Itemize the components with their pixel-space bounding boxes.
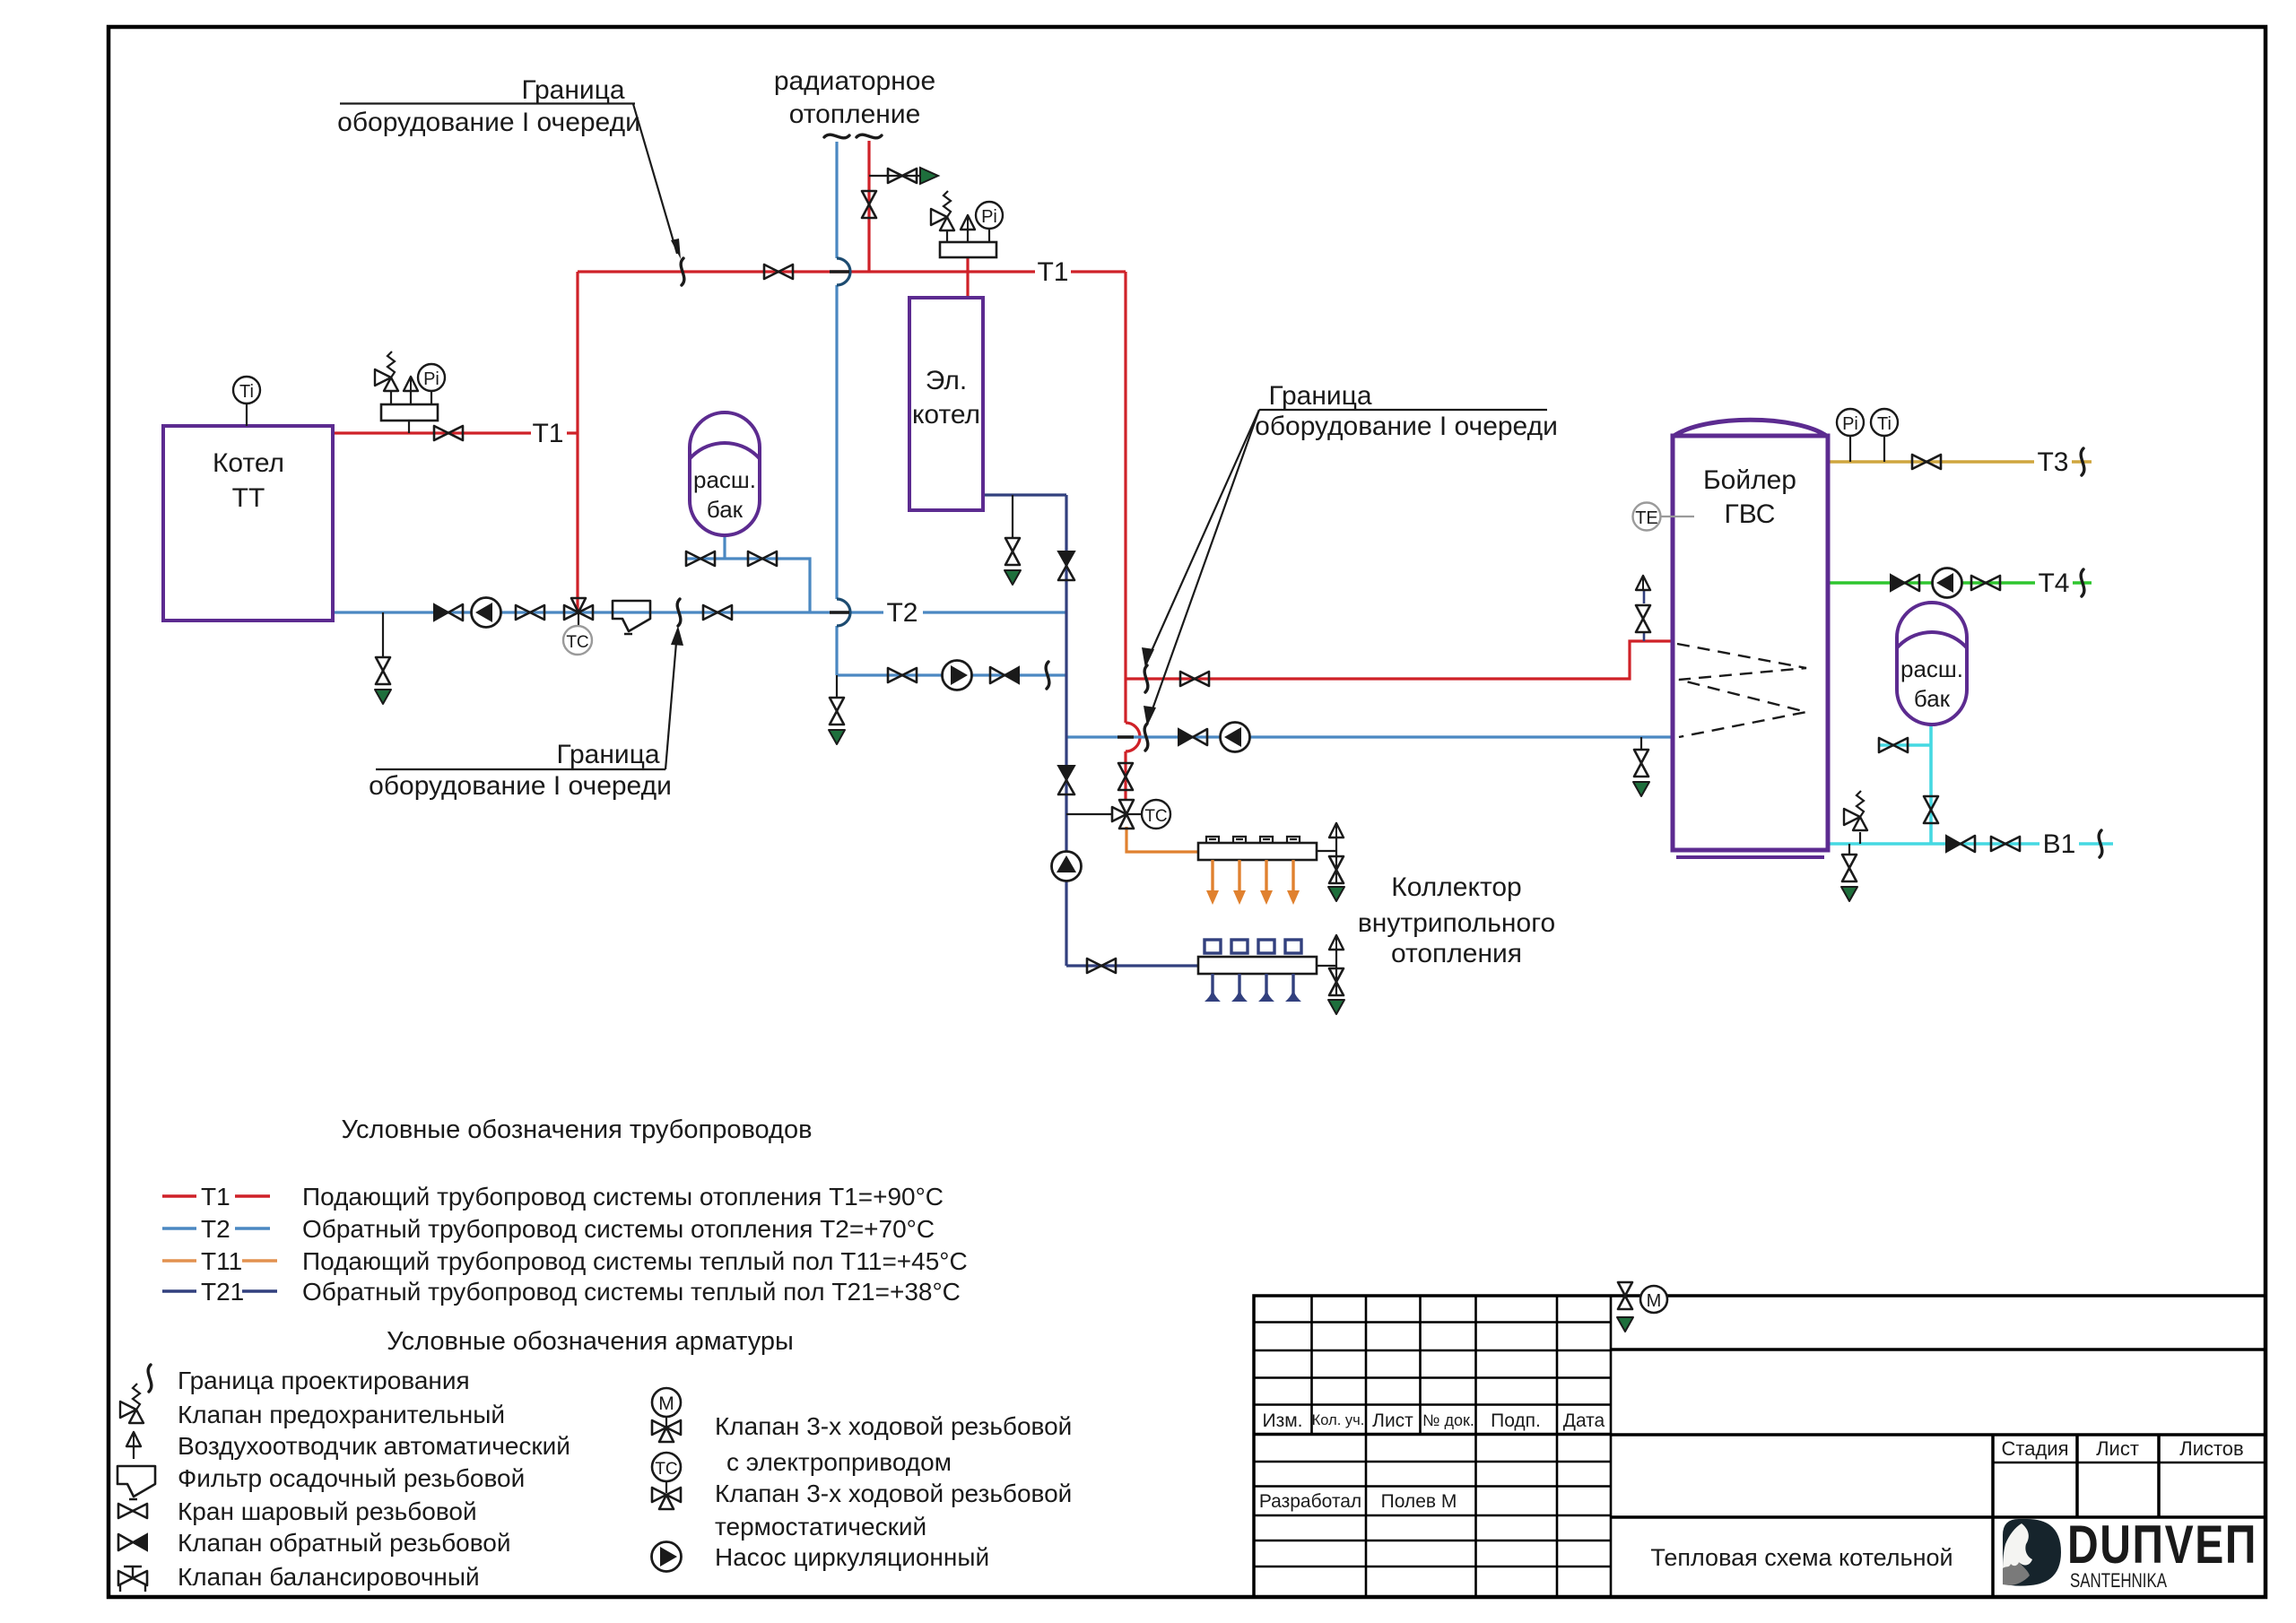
legend T1 sample line [162,1183,968,1306]
legend T11 sample line [162,1259,277,1263]
drain assembly under el.boiler [1004,538,1021,585]
svg-text:Граница: Граница [521,75,624,105]
ball valve on T4 [1971,576,2000,590]
ball valve on DHW supply [1180,672,1209,686]
safety group manifold at boiler TT [381,391,438,433]
legend T2 sample line [162,1227,270,1230]
svg-text:DUПVEП: DUПVEП [2067,1515,2257,1575]
pipe expansion tank 2 stem [1929,725,1933,844]
circulation pump on T21 riser [1052,852,1082,881]
label T1 near boiler [531,419,567,448]
pipe radiator return hop over T2 [837,599,850,626]
pipe mixing line to T21 riser [837,673,1066,676]
check valve on mixing line [990,667,1019,683]
svg-text:Кол. уч.: Кол. уч. [1312,1412,1365,1428]
ball valve on T1 riser above 3-way [1118,763,1133,790]
svg-text:Обратный трубопровод системы о: Обратный трубопровод системы отопления Т… [302,1215,935,1243]
svg-text:Насос циркуляционный: Насос циркуляционный [715,1543,989,1571]
svg-text:Т3: Т3 [2037,447,2068,477]
legend design boundary symbol [148,1365,152,1392]
svg-text:Кран шаровый резьбовой: Кран шаровый резьбовой [178,1497,477,1525]
pipe boiler TT drain stub [382,612,384,657]
svg-text:радиаторное: радиаторное [774,66,935,96]
3-way thermostatic valve on T2 [564,598,593,620]
svg-text:Подающий трубопровод системы о: Подающий трубопровод системы отопления Т… [302,1183,944,1211]
svg-text:Подп.: Подп. [1491,1410,1541,1431]
pipe DHW tank return [1066,735,1673,738]
svg-text:Условные обозначения арматуры: Условные обозначения арматуры [387,1327,794,1356]
pipe expansion tank line [686,559,810,612]
drain assembly on B1 [1841,855,1857,901]
expansion tank 1 ball valve left [686,551,715,566]
ball valve on expansion tank 2 stem [1924,796,1938,823]
pipe T1 riser vertical [576,272,578,612]
svg-text:Клапан обратный резьбовой: Клапан обратный резьбовой [178,1529,511,1557]
svg-text:Изм.: Изм. [1263,1410,1303,1431]
svg-text:Клапан 3-х ходовой резьбовой: Клапан 3-х ходовой резьбовой [715,1480,1072,1507]
TC sensor circle at floor heating valve [1126,813,1142,815]
ball valve on radiator drain branch [888,169,917,183]
DHW tank Бойлер ГВС [1673,420,1828,857]
air vent at boiler TT manifold [404,377,418,391]
pipe el.boiler drain stub [1012,495,1013,538]
pressure gauge Pi at el.boiler manifold [976,202,1003,229]
svg-text:Pi: Pi [981,207,997,227]
circulation pump on DHW return [1221,723,1250,752]
temperature sensor TE [1633,503,1695,531]
return collector loop stems [1205,974,1301,1002]
label T4 [2035,568,2073,598]
svg-text:Подающий трубопровод системы т: Подающий трубопровод системы теплый пол … [302,1247,968,1275]
floor heating return collector T21 [1198,940,1317,974]
ball valve on T2 after break [703,605,732,620]
svg-text:Граница: Граница [1268,381,1371,411]
drain outlet arrow on radiator branch [920,168,938,184]
svg-text:В1: В1 [2043,829,2076,859]
check valve on B1 [1946,836,1975,852]
pipe T1 top main [578,270,1126,273]
svg-text:оборудование I очереди: оборудование I очереди [369,771,672,801]
svg-text:Эл.: Эл. [926,366,967,395]
pipe T1 right riser down [1124,272,1126,801]
return collector air vent assembly [1317,935,1344,1014]
svg-text:Полев М: Полев М [1381,1491,1457,1512]
check valve on T4 [1891,575,1919,591]
svg-text:Т1: Т1 [1037,257,1068,287]
supply collector loop arrows [1206,860,1300,905]
pipe expansion tank 2 side stub [1879,743,1931,747]
svg-text:Клапан 3-х ходовой резьбовой: Клапан 3-х ходовой резьбовой [715,1412,1072,1440]
svg-text:ТС: ТС [1144,807,1167,826]
svg-text:Обратный трубопровод системы т: Обратный трубопровод системы теплый пол … [302,1278,961,1306]
label T2 [883,598,923,628]
ball valve on T2 [516,605,544,620]
DHW tank heat exchanger coil [1677,644,1806,737]
black chord under T1 hop [830,270,849,273]
pipe 3-way valve control line [1066,813,1112,815]
svg-text:Разработал: Разработал [1259,1491,1361,1512]
design boundary break on DHW return [1144,724,1148,751]
svg-text:Pi: Pi [423,369,439,389]
thermometer Ti on boiler TT [246,404,248,426]
svg-text:термостатический: термостатический [715,1513,926,1541]
stage table verticals [1993,1435,2159,1597]
svg-text:ГВС: ГВС [1725,499,1776,529]
TC sensor circle at T2 3-way valve [578,612,579,626]
legend ball valve symbol [118,1504,147,1518]
label B1 [2039,829,2079,859]
pipe B1 safety valve stub [1859,832,1861,844]
expansion tank 1 ball valve right [748,551,777,566]
svg-text:Граница проектирования: Граница проектирования [178,1367,470,1394]
svg-text:внутрипольного: внутрипольного [1358,908,1555,938]
ball valve on T21 collector line [1087,959,1116,973]
svg-text:Ti: Ti [239,382,254,402]
design boundary break on DHW supply [1144,665,1148,692]
svg-text:ТС: ТС [655,1460,677,1479]
svg-text:с электроприводом: с электроприводом [726,1448,952,1476]
thermometer Ti at DHW tank [1871,409,1898,462]
svg-text:Стадия: Стадия [2002,1437,2069,1460]
svg-text:бак: бак [1914,685,1951,712]
boundary break on T4 [2081,569,2084,596]
svg-text:Граница: Граница [556,740,659,769]
pipe T4 recirculation [1828,581,2092,585]
black chord under DHW return hop [1118,735,1134,738]
svg-text:оборудование I очереди: оборудование I очереди [337,108,640,137]
circulation pump on T4 [1933,568,1962,598]
pipe B1 cold water [1828,842,2113,846]
pipe T1 hop over return line [1126,723,1140,751]
svg-text:расш.: расш. [693,466,756,493]
title block left table horizontal lines [1254,1323,1611,1567]
svg-text:Ti: Ti [1877,414,1892,434]
pressure gauge Pi at boiler TT manifold [418,364,445,391]
callout label boundary first stage top [337,75,681,259]
title block left table vertical lines above header [1312,1296,1612,1597]
pipe T2 main [333,611,1066,613]
svg-text:отопление: отопление [789,100,921,129]
svg-text:№ док.: № док. [1422,1411,1474,1429]
label T1 on top main [1035,257,1071,287]
legend check valve symbol [118,1534,147,1550]
filter on T2 [613,601,650,634]
safety group manifold at el.boiler [940,229,996,257]
3-way thermostatic valve at floor heating [1112,800,1134,829]
safety valve on B1 [1844,791,1867,830]
legend T21 sample line [162,1289,277,1293]
svg-text:Т21: Т21 [201,1278,244,1306]
ball valve on T1 main [764,265,793,279]
svg-text:Т2: Т2 [201,1215,230,1243]
legend filter symbol [117,1466,155,1499]
svg-text:расш.: расш. [1900,655,1963,682]
svg-text:оборудование I очереди: оборудование I очереди [1255,412,1558,441]
boundary break on T3 [2081,448,2084,475]
svg-text:SANTEHNIKA: SANTEHNIKA [2070,1569,2167,1592]
radiator heating pipe breaks [824,135,849,138]
air vent valve at DHW tank inlet [1636,605,1650,632]
pipe B1 drain stub [1848,844,1850,855]
pipe radiator return hop over T1 [837,258,850,285]
svg-text:Бойлер: Бойлер [1703,465,1796,495]
design boundary break on mixing line [1046,662,1049,689]
title block header row separator [1254,1433,1611,1436]
expansion tank 1 [678,412,771,536]
svg-text:Т1: Т1 [532,419,563,448]
air vent at DHW tank inlet [1636,576,1650,590]
safety valve at boiler TT manifold [375,352,398,391]
svg-text:Т4: Т4 [2038,568,2069,598]
supply collector air vent assembly [1317,823,1344,901]
design boundary break on T1 main [681,258,684,285]
legend air vent symbol [126,1432,141,1459]
ball valve on B1 [1991,837,2020,851]
svg-text:Клапан предохранительный: Клапан предохранительный [178,1401,505,1428]
black chord under T2 hop [830,611,849,613]
legend circulation pump symbol [652,1542,682,1572]
svg-text:Лист: Лист [2096,1437,2139,1460]
design boundary break on T2 [677,599,681,626]
legend 3-way motor valve symbol [652,1388,681,1442]
pipe T21 riser [1065,495,1067,966]
pipe T11 from 3-way valve to collector [1126,827,1198,852]
svg-text:Тепловая схема котельной: Тепловая схема котельной [1650,1544,1952,1571]
svg-text:Фильтр осадочный резьбовой: Фильтр осадочный резьбовой [178,1464,525,1492]
drain assembly on DHW return [1633,750,1649,796]
title block right section horizontal lines [1611,1350,2266,1517]
svg-text:Условные обозначения трубопров: Условные обозначения трубопроводов [341,1115,812,1144]
title block header labels [1259,1410,2244,1512]
svg-text:Коллектор: Коллектор [1391,872,1521,902]
pipe T1 radiator drop [867,141,870,272]
pipe DHW air vent stub [1643,590,1646,641]
svg-text:котел: котел [912,400,980,430]
expansion tank 2 [1885,603,1979,725]
svg-text:бак: бак [707,496,744,523]
svg-text:Воздухоотводчик автоматический: Воздухоотводчик автоматический [178,1432,570,1460]
svg-text:ТТ: ТТ [232,483,265,513]
pipe T1 branch to DHW tank [1126,641,1673,679]
pipe radiator branch with drain [869,175,920,177]
pipe T1 boiler outlet to riser [333,431,578,434]
ball valve on mixing line [888,668,917,682]
air vent at el.boiler manifold [961,215,975,230]
boundary break on B1 [2099,830,2102,857]
pipe radiator line drain stub [836,675,838,699]
svg-text:Листов: Листов [2179,1437,2243,1460]
title block outer box [1254,1296,2266,1597]
svg-text:М: М [658,1393,674,1414]
label T3 [2034,447,2072,477]
valve with motor drive on title block top [1617,1282,1667,1332]
svg-text:Лист: Лист [1372,1410,1413,1431]
check valve on T21 riser below return [1058,766,1074,794]
svg-text:Клапан балансировочный: Клапан балансировочный [178,1563,480,1591]
ball valve on T1 at boiler TT [434,426,463,440]
stage table header line [1993,1462,2266,1464]
svg-text:ТЕ: ТЕ [1635,508,1658,528]
svg-text:отопления: отопления [1391,939,1522,968]
check valve on T2 at boiler TT [434,604,463,621]
pipe DHW return drain stub [1640,737,1642,751]
pipe T1 stub to el.boiler manifold [966,257,969,298]
circulation pump on mixing line [943,661,972,690]
pipe expansion tank stem [723,535,726,559]
pipe T3 hot water supply [1828,460,2092,464]
legend safety valve symbol [120,1384,143,1423]
legend balancing valve symbol [118,1567,147,1592]
check valve on DHW return [1178,729,1207,745]
drain assembly under boiler TT [375,657,391,704]
pressure gauge Pi at DHW tank [1837,409,1864,462]
svg-text:Т11: Т11 [201,1247,242,1275]
pipe T21 el.boiler outlet [983,493,1066,496]
drain assembly on radiator return corner [829,698,845,744]
floor heating supply collector T11 [1198,837,1317,860]
svg-text:М: М [1647,1291,1662,1311]
legend 3-way thermostatic valve symbol [652,1453,681,1509]
callout label boundary first stage bottom [369,626,683,801]
safety valve at el.boiler manifold [931,191,954,230]
callout label boundary first stage middle [1142,381,1558,726]
svg-text:Pi: Pi [1842,414,1858,434]
ball valve on T3 [1912,455,1941,469]
electric boiler Эл. котел [909,298,983,510]
pipe radiator return vertical [835,142,838,675]
ball valve on expansion tank 2 stub [1879,738,1908,752]
svg-text:Котел: Котел [213,448,284,478]
svg-text:ТС: ТС [566,633,588,652]
pipe T21 to floor collector [1066,964,1198,967]
svg-text:Дата: Дата [1563,1410,1605,1431]
solid fuel boiler Котел ТТ [163,426,333,621]
check valve on T21 riser top [1058,551,1074,580]
ball valve on radiator red drop [862,191,876,218]
svg-text:Т1: Т1 [201,1183,230,1211]
DUNVEN logo icon [2003,1519,2061,1586]
svg-text:Т2: Т2 [886,598,918,628]
circulation pump on T2 [472,598,501,628]
